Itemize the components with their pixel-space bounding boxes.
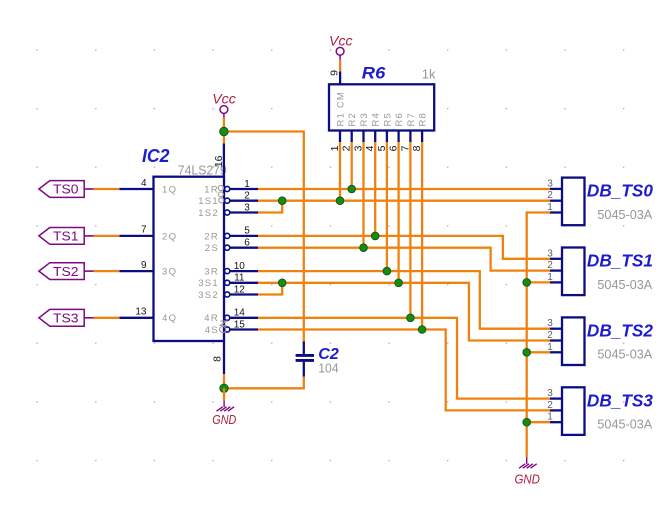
svg-text:2R: 2R (204, 231, 219, 242)
pin 5 bubble (225, 233, 230, 238)
svg-text:2: 2 (547, 400, 553, 411)
svg-text:DB_TS2: DB_TS2 (587, 320, 653, 340)
svg-text:6: 6 (244, 238, 250, 249)
wire TS0 to pin 4 (94, 188, 120, 190)
junction (523, 279, 531, 287)
svg-text:4S: 4S (205, 325, 219, 336)
wire ground bus (527, 213, 550, 458)
pin 3 of DB_TS3 (550, 397, 562, 399)
junction (523, 349, 531, 357)
pin 2 of DB_TS3 (550, 409, 562, 411)
wire R6 pin 3 column (362, 142, 364, 248)
wire bus to DB_TS2 pin1 (527, 351, 550, 353)
wire R6 pin 7 column (409, 142, 411, 318)
pin 2 bubble (225, 198, 230, 203)
wire net 2R row (258, 236, 550, 259)
wire R6 pin 8 column (421, 142, 423, 329)
pin 2 of DB_TS1 (550, 269, 562, 271)
pin 6 bubble (225, 245, 230, 250)
connector DB_TS0 body (562, 178, 585, 226)
pin 2 of R6 (351, 131, 353, 143)
svg-text:1Q: 1Q (162, 184, 177, 195)
svg-text:11: 11 (234, 273, 245, 284)
svg-text:3S1: 3S1 (198, 278, 219, 289)
svg-text:3R: 3R (204, 267, 219, 278)
svg-text:2: 2 (244, 191, 250, 202)
svg-text:1R: 1R (204, 184, 219, 195)
wire net 4R row (258, 318, 550, 399)
svg-text:R1 CM: R1 CM (335, 91, 346, 127)
junction (371, 232, 379, 240)
pin 3 of DB_TS1 (550, 258, 562, 260)
wire R6 pin 6 column (397, 142, 399, 283)
svg-text:4: 4 (141, 178, 147, 189)
svg-text:R2: R2 (347, 112, 358, 127)
pin 3 bubble (225, 210, 230, 215)
svg-text:DB_TS1: DB_TS1 (587, 251, 653, 271)
svg-text:R7: R7 (406, 112, 417, 127)
junction (395, 279, 403, 287)
port TS1 (39, 228, 84, 245)
wire R6 pin 5 column (386, 142, 388, 271)
pin 8 of R6 (421, 131, 423, 143)
svg-text:1k: 1k (422, 66, 436, 81)
svg-text:R6: R6 (362, 64, 386, 83)
power port Vcc (R6) (336, 47, 344, 55)
svg-text:8: 8 (212, 356, 224, 362)
svg-text:5045-03A: 5045-03A (597, 208, 652, 222)
pin 4 of R6 (374, 131, 376, 143)
wire Vcc to pin16 (223, 118, 225, 144)
pin 3 of DB_TS2 (550, 328, 562, 330)
wire TS2 to pin 9 (94, 270, 120, 272)
ground GND (bus) (519, 457, 537, 468)
pin 7 of IC2 (left) (119, 235, 153, 237)
svg-text:3: 3 (244, 202, 250, 213)
connector DB_TS3 body (562, 387, 585, 435)
junction (523, 418, 531, 426)
wire net 2S row (258, 248, 550, 271)
gray marks near pins 1-2 (218, 185, 223, 203)
port TS0 (39, 181, 84, 198)
svg-text:R6: R6 (394, 112, 405, 127)
pin 11 bubble (225, 280, 230, 285)
wire net 3S2 stub (258, 283, 282, 295)
wire bus to DB_TS3 pin1 (527, 421, 550, 423)
ground GND (IC2/C2) (217, 400, 235, 411)
wire R6 pin 1 column (339, 142, 341, 201)
pin 1 of IC2 (right) (230, 188, 258, 190)
svg-text:3Q: 3Q (162, 267, 177, 278)
svg-text:5045-03A: 5045-03A (597, 348, 652, 362)
svg-text:3: 3 (547, 248, 553, 259)
svg-text:10: 10 (234, 261, 246, 272)
wire TS1 to pin 7 (94, 235, 120, 237)
power port Vcc (IC2) (220, 106, 228, 114)
svg-text:1S1: 1S1 (198, 196, 219, 207)
svg-text:16: 16 (213, 155, 225, 167)
port stub wire TS1 (84, 235, 93, 237)
pin 14 of IC2 (right) (230, 317, 258, 319)
junction (360, 244, 368, 252)
svg-text:13: 13 (135, 307, 147, 318)
svg-text:1: 1 (547, 202, 553, 213)
svg-text:3: 3 (547, 178, 553, 189)
svg-text:R4: R4 (371, 112, 382, 127)
wire net 1S1 row (258, 200, 550, 202)
connector DB_TS1 body (562, 248, 585, 296)
svg-text:2: 2 (547, 190, 553, 201)
wire net 1S2 stub (258, 201, 282, 213)
svg-text:7: 7 (141, 225, 147, 236)
wire Vcc to pin 9 (339, 60, 341, 72)
junction (348, 185, 356, 193)
svg-text:5: 5 (244, 226, 250, 237)
pin 9 of IC2 (left) (119, 270, 153, 272)
svg-text:IC2: IC2 (142, 146, 170, 166)
svg-text:5045-03A: 5045-03A (597, 418, 652, 432)
svg-text:12: 12 (234, 284, 246, 295)
pin 3 of R6 (362, 131, 364, 143)
connector DB_TS2 body (562, 317, 585, 365)
pin 2 of DB_TS0 (550, 200, 562, 202)
svg-text:TS2: TS2 (53, 264, 79, 279)
wire junction to GND (223, 388, 225, 400)
junction (278, 279, 286, 287)
svg-text:5045-03A: 5045-03A (597, 278, 652, 292)
svg-text:9: 9 (329, 70, 341, 76)
pin 1 of DB_TS0 (550, 211, 562, 213)
svg-text:GND: GND (514, 471, 540, 486)
pin 2 of DB_TS2 (550, 339, 562, 341)
pin 15 bubble (225, 327, 230, 332)
junction (336, 197, 344, 205)
wire net 3S1 row (258, 283, 550, 341)
svg-text:Vcc: Vcc (329, 33, 353, 48)
pin 12 of IC2 (right) (230, 293, 258, 295)
svg-text:R8: R8 (418, 112, 429, 127)
svg-text:4R: 4R (204, 313, 219, 324)
svg-text:14: 14 (234, 308, 246, 319)
resistor network R6 body (329, 84, 434, 130)
junction (407, 314, 415, 322)
svg-text:3S2: 3S2 (198, 290, 219, 301)
pin 6 of IC2 (right) (230, 247, 258, 249)
pin 1 of DB_TS3 (550, 421, 562, 423)
pin 15 of IC2 (right) (230, 328, 258, 330)
pin 10 of IC2 (right) (230, 270, 258, 272)
capacitor C2 bottom lead (303, 362, 305, 377)
pin 1 of DB_TS1 (550, 281, 562, 283)
junction (418, 326, 426, 334)
port TS3 (39, 309, 84, 326)
pin 5 of IC2 (right) (230, 235, 258, 237)
pin 14 bubble (225, 315, 230, 320)
pin 8 of IC2 (223, 341, 225, 374)
capacitor C2 bottom plate (296, 359, 314, 362)
svg-text:1: 1 (547, 412, 553, 423)
svg-text:1: 1 (547, 342, 553, 353)
pin 6 of R6 (397, 131, 399, 143)
pin 13 of IC2 (left) (119, 317, 153, 319)
pin 16 of IC2 (223, 144, 225, 177)
port stub wire TS3 (84, 317, 93, 319)
wire bus to DB_TS1 pin1 (527, 281, 550, 283)
svg-text:2: 2 (547, 260, 553, 271)
junction (278, 197, 286, 205)
pin 2 of IC2 (right) (230, 200, 258, 202)
junction (383, 267, 391, 275)
pin 7 of R6 (409, 131, 411, 143)
capacitor C2 top lead (303, 342, 305, 355)
wire net 4S row (258, 330, 550, 411)
wire TS3 to pin 13 (94, 317, 120, 319)
pin 3 of IC2 (right) (230, 211, 258, 213)
junction at Vcc/pin16 (220, 127, 228, 135)
pin 9 of R6 (339, 71, 341, 84)
pin 11 of IC2 (right) (230, 282, 258, 284)
junction at pin8/C2 (220, 384, 228, 392)
svg-text:2: 2 (547, 330, 553, 341)
svg-text:DB_TS3: DB_TS3 (587, 390, 653, 410)
wire R6 pin 2 column (351, 142, 353, 189)
wire net 1R row (258, 188, 550, 190)
pin 3 of DB_TS0 (550, 188, 562, 190)
svg-text:1S2: 1S2 (198, 208, 219, 219)
svg-text:1: 1 (547, 272, 553, 283)
IC IC2 body (74LS279 quad SR latch) (154, 177, 225, 341)
pin 10 bubble (225, 269, 230, 274)
svg-text:4Q: 4Q (162, 313, 177, 324)
port stub wire TS0 (84, 188, 93, 190)
svg-text:R3: R3 (359, 112, 370, 127)
wire Vcc junction to C2 column (224, 132, 304, 342)
gray marks near pins 14-15 (220, 321, 227, 333)
svg-text:R5: R5 (382, 112, 393, 127)
port TS2 (39, 263, 84, 280)
pin 4 of IC2 (left) (119, 188, 153, 190)
svg-text:TS1: TS1 (53, 229, 79, 244)
svg-text:TS3: TS3 (53, 311, 79, 326)
pin 1 of DB_TS2 (550, 351, 562, 353)
svg-text:104: 104 (318, 361, 338, 376)
svg-text:DB_TS0: DB_TS0 (587, 181, 653, 201)
svg-text:Vcc: Vcc (212, 91, 236, 106)
svg-text:2S: 2S (205, 243, 219, 254)
svg-text:TS0: TS0 (53, 182, 79, 197)
svg-text:9: 9 (141, 260, 147, 271)
svg-text:1: 1 (244, 179, 250, 190)
pin 1 of R6 (339, 131, 341, 143)
pin 12 bubble (225, 292, 230, 297)
svg-text:15: 15 (234, 319, 246, 330)
power port Vcc stem (R6) (339, 55, 341, 59)
svg-text:2Q: 2Q (162, 231, 177, 242)
capacitor C2 top plate (296, 354, 314, 357)
pin 5 of R6 (386, 131, 388, 143)
svg-text:3: 3 (547, 388, 553, 399)
wire C2 to ground junction (224, 377, 304, 389)
wire net 3R row (258, 271, 550, 329)
svg-text:3: 3 (547, 318, 553, 329)
power port Vcc stem (223, 113, 225, 117)
svg-text:GND: GND (212, 412, 236, 427)
port stub wire TS2 (84, 270, 93, 272)
wire R6 pin 4 column (374, 142, 376, 236)
wire pin8 to ground junction (223, 374, 225, 388)
pin 1 bubble (225, 186, 230, 191)
